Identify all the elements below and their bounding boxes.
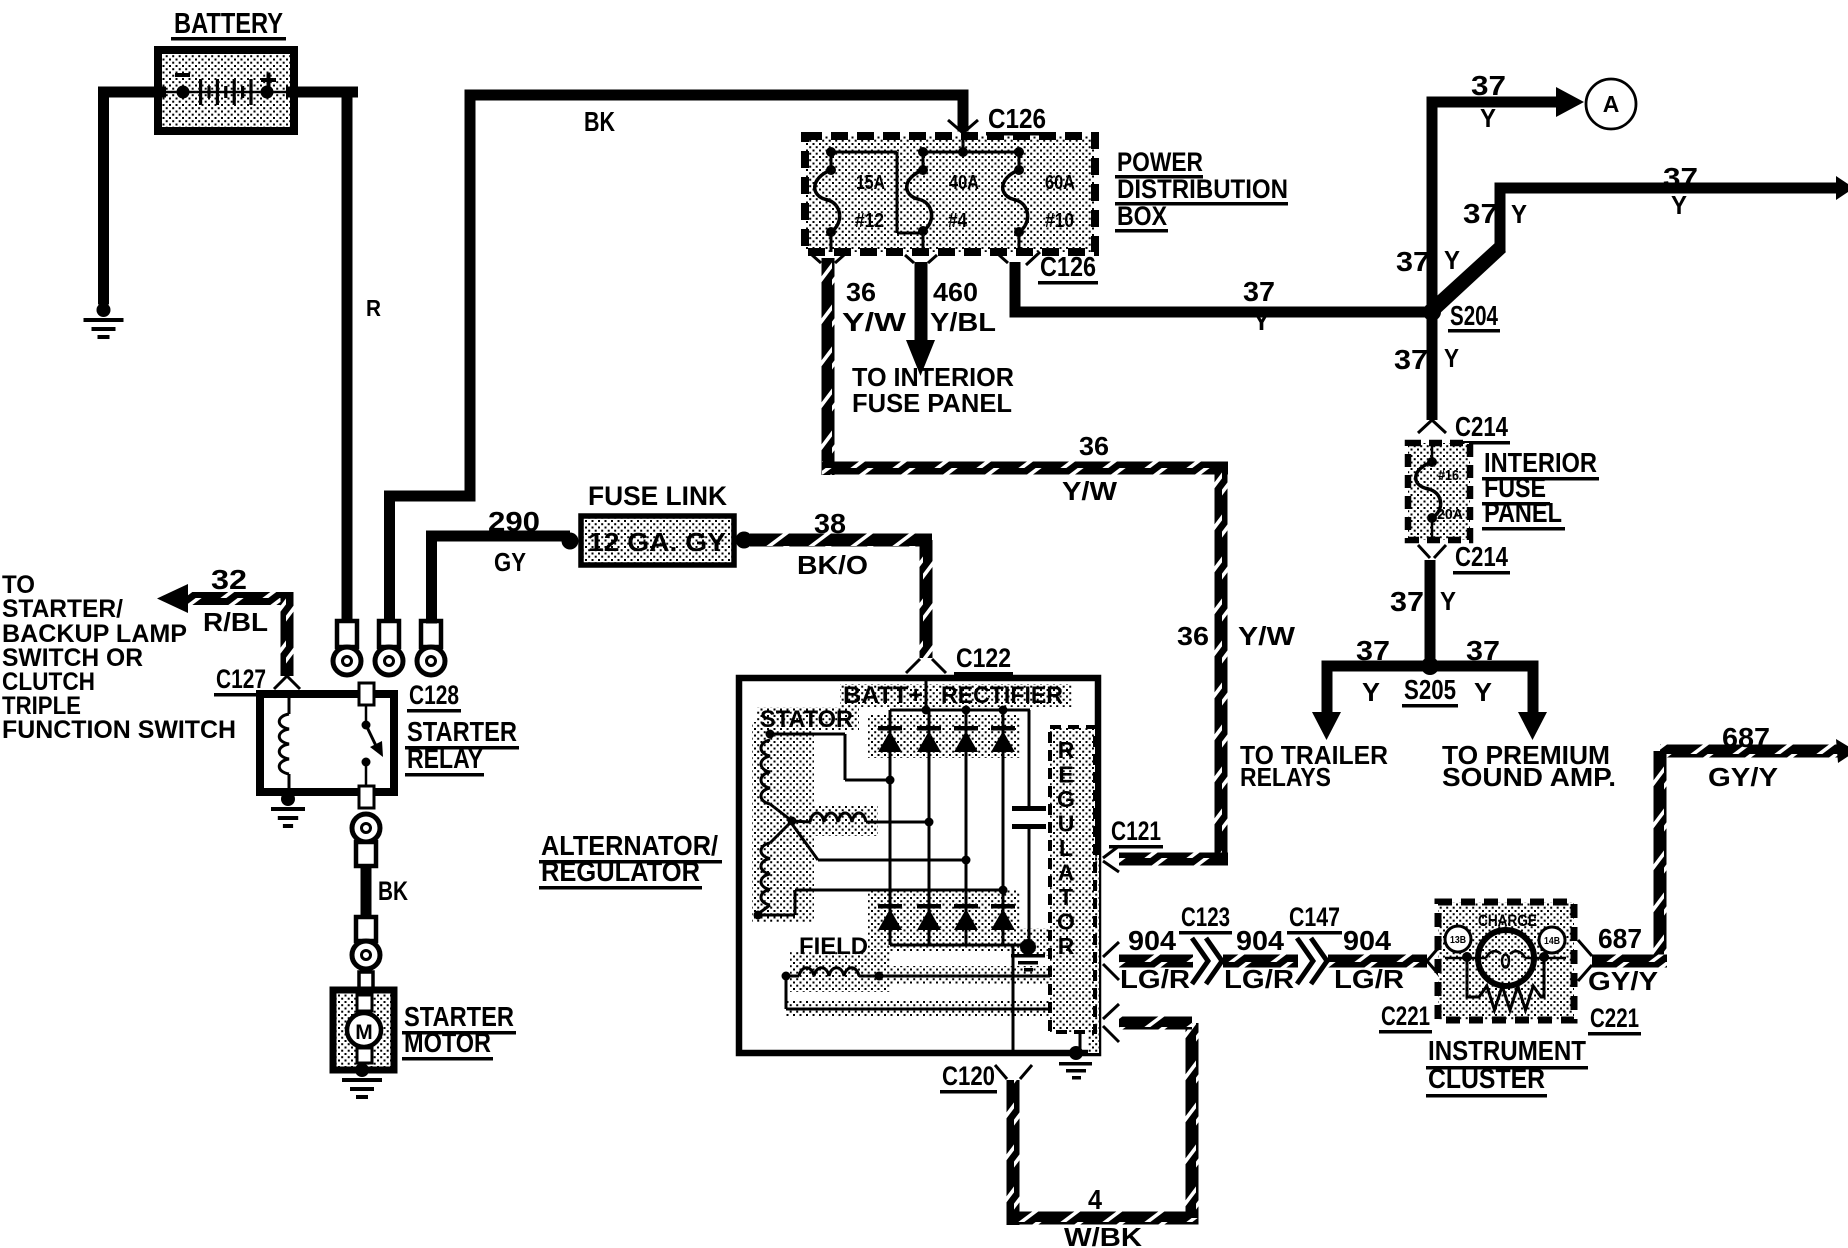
svg-text:S205: S205 [1404,674,1456,705]
cluster pin 13B [1445,926,1471,952]
svg-text:T: T [1059,884,1073,910]
svg-text:4: 4 [1088,1184,1102,1215]
svg-text:904: 904 [1128,925,1176,956]
svg-text:Y: Y [1253,306,1270,336]
svg-text:37: 37 [1390,586,1424,617]
starter motor armature [357,995,372,1011]
cluster exit fork right [1578,940,1592,956]
svg-text:GY/Y: GY/Y [1588,966,1658,996]
wire 37 Y splice S204 to connector A [1427,97,1438,317]
svg-text:#12: #12 [855,210,884,232]
wire 37 Y splice S204 to right edge [1427,242,1506,316]
starter motor ring terminal upper [352,814,380,842]
connector C214 top fork [1418,420,1432,433]
connector C121 fork [1103,846,1119,858]
cluster pin 14B [1539,927,1565,953]
rectifier diode column 1 [889,710,892,945]
svg-text:STATOR: STATOR [760,706,853,733]
starter relay ring terminal 3 [421,621,441,647]
wire 4 W/BK alternator C120 loop to alternator right side [1007,1080,1020,1225]
splice S205 [1421,657,1439,675]
wire BK battery feed to power distribution box [384,491,475,502]
wire 687 GY/Y instrument cluster to right edge [1660,745,1838,758]
starter motor M1 box [333,990,394,1070]
svg-text:C126: C126 [1040,251,1096,282]
regulator box [1050,727,1095,1032]
ground G100 battery [97,303,111,317]
alternator box [739,678,1098,1053]
svg-text:C147: C147 [1289,902,1340,932]
svg-text:PANEL: PANEL [1484,497,1562,528]
svg-text:POWER: POWER [1117,147,1203,177]
svg-text:C127: C127 [216,664,266,694]
svg-text:Y: Y [1474,677,1492,707]
wire 904 LG/R alternator to instrument cluster [1103,942,1119,957]
svg-text:#4: #4 [948,210,968,232]
capacitor C1 [1028,710,1031,808]
svg-text:REGULATOR: REGULATOR [541,856,700,887]
svg-text:INSTRUMENT: INSTRUMENT [1428,1035,1586,1066]
ground G104 alternator case [1069,1046,1083,1060]
svg-text:GY/Y: GY/Y [1708,762,1778,792]
svg-text:LG/R: LG/R [1334,964,1404,994]
connector C126 bottom forks [812,255,821,263]
svg-text:E: E [1058,762,1073,788]
instrument cluster box [1438,902,1574,1020]
connector C122 fork [906,659,920,673]
svg-text:687: 687 [1722,722,1770,753]
svg-text:C122: C122 [956,643,1011,673]
svg-text:Y/W: Y/W [1062,476,1118,506]
svg-text:CLUSTER: CLUSTER [1428,1063,1545,1094]
svg-text:R/BL: R/BL [203,607,268,637]
svg-text:32: 32 [211,564,247,595]
splice S204 [1423,303,1441,321]
svg-text:BATTERY: BATTERY [174,8,283,40]
wire 37 Y connector C214 to splice S205 [1425,560,1436,666]
stator phase line to diode column 3 [792,824,818,860]
svg-text:BATT+: BATT+ [843,682,923,709]
connector C120 fork [995,1065,1007,1079]
rectifier bottom bus [890,944,1028,947]
svg-text:C221: C221 [1590,1003,1639,1033]
svg-text:Y: Y [1440,586,1456,616]
wire 290 GY starter relay to fuse link [426,531,437,624]
rectifier top bus [890,709,1030,712]
svg-text:FUSE PANEL: FUSE PANEL [852,388,1012,418]
svg-text:R: R [1058,933,1075,959]
power distribution box internal bus [831,151,897,154]
svg-text:20A: 20A [1437,506,1463,523]
fuse F2 40A #4 [918,147,928,157]
svg-text:Y: Y [1444,343,1459,373]
battery positive terminal [261,86,274,99]
wire 36 Y/W fuse F1 to connector C121 [822,258,835,475]
svg-text:37: 37 [1394,344,1428,375]
svg-text:BK/O: BK/O [797,550,868,580]
svg-text:904: 904 [1343,925,1391,956]
svg-text:G: G [1057,786,1075,812]
svg-text:FUSE LINK: FUSE LINK [588,481,727,511]
svg-text:37: 37 [1356,635,1390,666]
battery B1 [158,50,294,131]
field return line [785,976,788,1009]
svg-text:GY: GY [494,547,526,577]
svg-text:BK: BK [378,876,408,906]
svg-text:C221: C221 [1381,1001,1430,1031]
ground G101 starter relay [281,792,295,806]
svg-text:Y: Y [1480,103,1496,133]
svg-text:A: A [1603,91,1620,117]
svg-text:Y: Y [1362,677,1380,707]
wire R battery positive to starter relay [286,87,358,98]
charge indicator bulb [1478,930,1534,986]
field winding [782,972,791,981]
connector C126 top fork [948,120,963,133]
connector C147 chevrons [1298,950,1328,972]
svg-text:S204: S204 [1450,300,1498,331]
svg-text:C121: C121 [1111,816,1161,846]
svg-text:C214: C214 [1455,411,1508,442]
svg-text:M: M [355,1021,373,1044]
svg-text:37: 37 [1243,276,1275,307]
svg-text:C214: C214 [1455,541,1508,572]
svg-text:C126: C126 [988,103,1046,134]
stator winding A [766,730,775,739]
cluster shunt resistor [1467,957,1544,1010]
svg-text:Y/W: Y/W [1238,621,1296,651]
svg-text:14B: 14B [1544,935,1560,947]
svg-text:Y: Y [1511,199,1527,229]
svg-text:37: 37 [1463,198,1498,229]
wire 460 Y/BL fuse F2 to interior fuse panel arrow [915,262,928,344]
svg-text:RELAY: RELAY [407,743,483,774]
svg-text:Y: Y [1444,245,1460,275]
fuse link node left [562,533,579,550]
svg-text:L: L [1059,835,1073,861]
starter relay ring terminal 2 [379,621,399,647]
svg-text:38: 38 [814,508,846,539]
svg-text:13B: 13B [1450,934,1466,946]
regulator field diode [1063,999,1066,1009]
stator winding C [770,821,792,843]
svg-text:RECTIFIER: RECTIFIER [941,682,1063,709]
wire 37 Y fuse F3 to splice S204 [1010,262,1021,312]
alternator stipple shading [752,722,814,922]
svg-text:FUNCTION SWITCH: FUNCTION SWITCH [2,716,236,744]
svg-text:LG/R: LG/R [1224,964,1294,994]
svg-text:37: 37 [1663,162,1698,193]
rectifier diode column 4 [1002,710,1005,945]
ground G103 rectifier [1011,954,1045,958]
svg-text:O: O [1057,909,1075,935]
alternator C120 branch [1012,945,1015,1050]
svg-text:R: R [366,295,381,321]
regulator output node [1072,1002,1088,1018]
svg-text:37: 37 [1396,246,1430,277]
stator winding B [792,821,810,822]
starter motor ring terminal lower [356,917,376,941]
starter relay ring terminal 1 [337,621,357,647]
svg-text:37: 37 [1466,635,1500,666]
rectifier diode column 3 [965,710,968,945]
svg-text:60A: 60A [1045,172,1075,194]
connector C214 bottom fork [1418,545,1430,558]
svg-text:Y/BL: Y/BL [930,307,996,337]
svg-text:MOTOR: MOTOR [404,1027,491,1058]
svg-text:Y: Y [1671,190,1687,220]
starter relay K1 box [260,694,394,792]
svg-text:37: 37 [1471,70,1506,101]
cluster node right [1539,952,1549,962]
svg-text:RELAYS: RELAYS [1240,762,1331,792]
svg-text:W/BK: W/BK [1064,1222,1142,1248]
svg-text:36: 36 [846,277,876,307]
svg-text:C120: C120 [942,1061,995,1091]
fuse F1 15A #12 [826,147,836,157]
svg-text:12 GA. GY: 12 GA. GY [588,527,726,557]
connector C127 fork [274,676,287,689]
svg-text:R: R [1058,737,1075,763]
svg-text:STARTER/: STARTER/ [2,595,123,623]
interior fuse panel fuse #16 20A [1431,443,1434,462]
ground node alternator [1020,939,1036,955]
svg-text:LG/R: LG/R [1120,964,1190,994]
svg-text:BOX: BOX [1117,201,1167,231]
wire 32 R/BL connector C127 to triple function switch arrow [186,592,293,605]
power distribution box [805,136,1095,252]
svg-text:C128: C128 [409,680,459,710]
wire 37 Y splice S205 to trailer relays arrow [1322,661,1437,672]
fuse link 12 GA GY box [581,516,734,565]
svg-text:15A: 15A [856,172,885,194]
svg-text:U: U [1058,811,1075,837]
rectifier diode column 2 [928,710,931,945]
regulator sense line from C121 [1080,858,1097,861]
svg-text:BK: BK [584,106,615,137]
interior fuse panel box [1408,443,1470,540]
wire 37 Y splice S204 to connector C214 [1427,318,1438,420]
ground G102 starter motor [355,1063,369,1077]
instrument cluster entry fork [1427,946,1440,961]
svg-text:#10: #10 [1045,210,1074,232]
svg-text:36: 36 [1079,431,1109,461]
wire BK starter relay to starter motor [361,864,372,917]
svg-text:290: 290 [488,506,540,537]
starter relay switch [359,683,374,705]
svg-text:40A: 40A [949,172,979,194]
svg-text:#16: #16 [1438,467,1459,484]
wire 38 BK/O fuse link to connector C122 [750,534,932,547]
svg-text:904: 904 [1236,925,1284,956]
battery negative terminal [177,86,190,99]
svg-text:Y/W: Y/W [842,307,907,337]
wire 37 Y splice S205 to premium sound amp arrow [1430,661,1533,672]
connector C123 chevrons [1193,950,1223,972]
starter relay coil [288,698,291,714]
svg-text:C123: C123 [1181,902,1230,932]
svg-text:SOUND AMP.: SOUND AMP. [1442,762,1616,792]
svg-text:A: A [1058,860,1075,886]
stator star point [788,817,797,826]
svg-text:687: 687 [1598,923,1642,954]
wire battery negative to ground [98,87,166,98]
cluster node left [1462,952,1472,962]
fuse F3 60A #10 [1014,147,1024,157]
wire batt+ entry from C122 [925,678,928,710]
svg-text:460: 460 [933,277,978,307]
svg-text:DISTRIBUTION: DISTRIBUTION [1117,174,1288,204]
connector A circle [1586,79,1636,129]
fuse link node right [736,532,753,549]
svg-text:FIELD: FIELD [799,933,868,960]
svg-text:36: 36 [1177,621,1209,651]
